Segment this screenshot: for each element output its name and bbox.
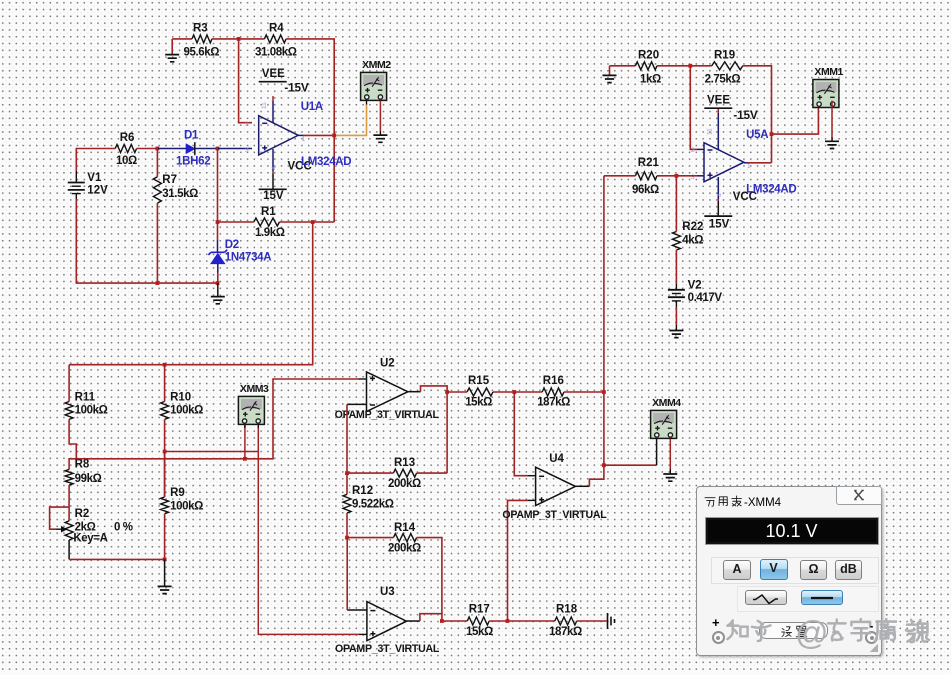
battery V2: [668, 280, 722, 305]
node R13/R12/U2- junction: [345, 471, 349, 475]
svg-text:R16: R16: [543, 375, 564, 387]
button Ohm: [800, 560, 827, 580]
button dB: [835, 560, 862, 580]
wire top rail (R1 node to R11/R10): [69, 222, 313, 365]
op-amp U3 (virtual): [367, 602, 407, 641]
svg-text:OPAMP_3T_VIRTUAL: OPAMP_3T_VIRTUAL: [335, 643, 440, 655]
wire ground to R20: [610, 65, 636, 67]
wire R9 bottom lead: [164, 514, 166, 560]
svg-text:1N4734A: 1N4734A: [225, 251, 271, 263]
wire R18 right lead: [577, 620, 607, 622]
resistor R11: [65, 391, 107, 419]
multimeter XMM1: [813, 66, 844, 108]
svg-text:1.9kΩ: 1.9kΩ: [255, 227, 285, 239]
wire R2 bottom lead: [68, 540, 70, 559]
wire R3-R4: [212, 38, 264, 40]
svg-text:9.522kΩ: 9.522kΩ: [352, 499, 394, 511]
button V (selected): [760, 559, 788, 580]
svg-text:OPAMP_3T_VIRTUAL: OPAMP_3T_VIRTUAL: [502, 509, 607, 521]
zener diode D2 1N4734A: [208, 222, 271, 283]
resistor R15: [465, 375, 493, 409]
svg-text:99kΩ: 99kΩ: [75, 473, 102, 485]
svg-text:95.6kΩ: 95.6kΩ: [184, 47, 220, 59]
svg-text:V1: V1: [87, 172, 102, 184]
svg-text:200kΩ: 200kΩ: [388, 478, 421, 490]
resistor R10: [161, 391, 203, 419]
wire V1 bottom rail: [76, 199, 217, 283]
potentiometer R2: [50, 507, 133, 544]
wire node A to D1 anode: [157, 148, 186, 150]
svg-text:15kΩ: 15kΩ: [465, 397, 492, 409]
svg-text:OPAMP_3T_VIRTUAL: OPAMP_3T_VIRTUAL: [335, 409, 440, 421]
ground (XMM1): [825, 141, 839, 148]
wire R19 to output vertical: [743, 66, 772, 163]
ground (left of R20): [603, 66, 617, 83]
op-amp U2 (virtual): [367, 372, 408, 412]
battery V1: [68, 170, 108, 200]
wire XMM4 right terminal to ground: [669, 439, 671, 469]
wire junction to U1A inverting input: [239, 39, 252, 123]
resistor R1: [254, 206, 285, 239]
plus jack: [712, 615, 720, 630]
wire R1 left lead: [218, 221, 254, 223]
node R17/R18/U4+ junction: [506, 619, 510, 623]
wire U1A output: [298, 134, 303, 136]
resistor R3: [184, 23, 220, 59]
node U4 out/XMM4 junction: [602, 463, 606, 467]
minus jack: [869, 618, 873, 633]
wire U3 non-inverting stub: [359, 633, 367, 635]
wire R1 node to R4 vertical: [313, 221, 335, 223]
wire R12 top lead: [346, 473, 348, 494]
ground (XMM2): [373, 135, 387, 142]
wire U5A output: [744, 162, 748, 164]
node XMM1 branch junction: [770, 132, 774, 136]
wire U3 inverting input: [347, 609, 367, 611]
node R10/R9 junction: [163, 450, 167, 454]
resistor R7: [153, 174, 198, 203]
svg-text:R9: R9: [170, 487, 185, 499]
ground (XMM4): [663, 474, 677, 481]
wire R7 leads: [156, 149, 158, 284]
ground (sideways, after R18): [608, 613, 615, 629]
resize grip: [870, 644, 878, 652]
wire R22 top lead: [675, 176, 677, 232]
wire XMM3 left terminal down: [244, 424, 246, 458]
svg-text:3: 3: [245, 147, 249, 154]
wire line R10/R9 node to XMM3 right: [165, 451, 259, 453]
svg-text:U1A: U1A: [301, 101, 323, 113]
button AC (sine): [745, 590, 787, 605]
wire junction to U5A inverting input: [690, 66, 697, 150]
svg-text:U5A: U5A: [746, 129, 768, 141]
resistor R19: [705, 50, 743, 86]
svg-text:2: 2: [245, 121, 249, 128]
resistor R8: [65, 459, 101, 486]
wire node C to U2+ (long): [76, 379, 358, 459]
VCC power (U1A): [259, 160, 312, 202]
node R1 left junction: [216, 220, 220, 224]
svg-text:R11: R11: [75, 391, 96, 403]
wire R11 top lead: [68, 365, 70, 402]
ground (below R9): [158, 586, 172, 593]
wire R17 right to R18: [489, 620, 555, 622]
svg-text:R15: R15: [468, 375, 490, 387]
svg-text:0.417V: 0.417V: [688, 292, 723, 304]
svg-text:R10: R10: [170, 391, 191, 403]
wire junction to XMM4 left terminal: [604, 464, 657, 466]
svg-text:U3: U3: [380, 586, 395, 598]
svg-text:D2: D2: [225, 239, 239, 251]
svg-text:11: 11: [261, 102, 268, 109]
resistor R4: [255, 23, 297, 59]
wire ground to R3: [172, 38, 192, 40]
svg-text:1kΩ: 1kΩ: [640, 74, 661, 86]
node R3/R4 junction: [237, 37, 241, 41]
node XMM3 left junction: [243, 457, 247, 461]
VCC power (U5A): [704, 191, 757, 231]
svg-text:LM324AD: LM324AD: [301, 156, 351, 168]
node R21/R22/U5A+ junction: [675, 174, 679, 178]
svg-text:XMM4: XMM4: [652, 397, 681, 409]
resistor R14: [388, 522, 421, 555]
resistor R18: [549, 604, 582, 639]
svg-text:Key=A: Key=A: [73, 533, 107, 545]
resistor R13: [388, 457, 421, 490]
resistor R17: [466, 604, 493, 639]
wire R13 right lead: [417, 472, 448, 474]
resistor R21: [632, 157, 660, 196]
svg-text:R20: R20: [638, 50, 659, 62]
svg-text:4: 4: [717, 193, 724, 197]
svg-text:15kΩ: 15kΩ: [466, 626, 493, 638]
wire R13 left lead: [347, 472, 393, 474]
svg-text:R1: R1: [261, 206, 276, 218]
svg-text:R18: R18: [556, 604, 578, 616]
svg-text:1: 1: [302, 136, 306, 143]
svg-text:R21: R21: [638, 157, 660, 169]
wire R14 left lead: [347, 537, 393, 539]
wire R6 to node A: [137, 148, 158, 150]
node A (R6/R7/D1): [156, 147, 160, 151]
wire node B down to R1 node: [217, 149, 219, 223]
svg-text:R6: R6: [120, 132, 135, 144]
wire XMM1 right terminal to ground: [831, 101, 833, 137]
svg-text:1: 1: [747, 163, 751, 170]
wire U4 output jog: [575, 485, 589, 487]
svg-text:R22: R22: [682, 221, 703, 233]
svg-text:LM324AD: LM324AD: [746, 183, 796, 195]
svg-text:R3: R3: [193, 23, 208, 35]
wire R4 to output node vertical: [286, 39, 334, 222]
svg-text:R13: R13: [394, 457, 415, 469]
svg-text:100kΩ: 100kΩ: [75, 405, 108, 417]
svg-text:XMM2: XMM2: [362, 59, 391, 71]
resistor R9: [161, 487, 203, 514]
svg-text:187kΩ: 187kΩ: [549, 626, 582, 638]
svg-text:10Ω: 10Ω: [116, 155, 137, 167]
svg-text:XMM1: XMM1: [814, 66, 843, 78]
settings button 设置: [759, 622, 828, 639]
op-amp U1A LM324AD: [245, 96, 306, 189]
multimeter XMM4: [651, 397, 682, 439]
wire long vertical net (R21 to U4 out): [603, 176, 605, 465]
resistor R12: [343, 485, 394, 513]
svg-text:4: 4: [271, 166, 278, 170]
node U2 out/R13/R15 junction: [445, 390, 449, 394]
svg-text:15V: 15V: [709, 218, 730, 230]
multimeter window XMM4: [696, 486, 882, 656]
svg-text:100kΩ: 100kΩ: [170, 501, 203, 513]
node R10 top junction: [163, 363, 167, 367]
wire XMM3 right terminal down to U3+: [258, 428, 359, 634]
wire XMM2 right terminal to ground: [379, 101, 381, 131]
svg-text:11: 11: [707, 128, 714, 135]
wire node B to U1A non-inverting input: [218, 148, 253, 150]
svg-text:2.75kΩ: 2.75kΩ: [705, 74, 741, 86]
svg-text:-XMM4: -XMM4: [744, 497, 782, 508]
svg-text:R12: R12: [352, 485, 373, 497]
wire R15 left lead: [447, 391, 467, 393]
svg-text:-15V: -15V: [733, 110, 758, 122]
wire to ground below R9: [164, 559, 166, 586]
node R16/long vertical junction: [602, 390, 606, 394]
svg-text:R4: R4: [269, 23, 284, 35]
wire R1 right lead: [279, 221, 312, 223]
wire R15-R16: [493, 391, 542, 393]
svg-text:15V: 15V: [263, 190, 284, 202]
wire D2 to ground: [217, 283, 219, 297]
resistor R6: [115, 132, 137, 167]
svg-text:-15V: -15V: [284, 82, 309, 94]
diode D1 1BH62: [176, 130, 210, 168]
op-amp U4 (virtual): [536, 467, 576, 505]
wire R16 right lead: [564, 391, 604, 393]
node B (D1/U1A+/D2): [216, 147, 220, 151]
svg-text:R8: R8: [75, 459, 90, 471]
svg-text:U4: U4: [549, 453, 564, 465]
VEE power (U1A): [259, 68, 309, 95]
wire R10 top lead: [164, 365, 166, 402]
svg-text:R7: R7: [162, 174, 177, 186]
svg-text:4kΩ: 4kΩ: [682, 235, 703, 247]
svg-text:0 %: 0 %: [114, 522, 133, 534]
svg-text:VEE: VEE: [707, 95, 730, 107]
wire output to XMM2 (orange): [334, 104, 366, 135]
svg-text:V2: V2: [688, 280, 702, 292]
svg-text:R14: R14: [394, 522, 416, 534]
svg-text:XMM3: XMM3: [240, 383, 269, 395]
svg-text:2: 2: [691, 147, 695, 154]
svg-text:R2: R2: [75, 508, 90, 520]
ground (below D2): [211, 297, 225, 304]
wire R12 bottom lead: [346, 513, 348, 538]
wire R10 to R9: [164, 419, 166, 497]
wire U2 inverting input: [347, 403, 367, 405]
display 10.1 V: [705, 517, 879, 545]
wire R20-R19: [657, 65, 712, 67]
svg-text:R19: R19: [714, 50, 735, 62]
wire R22 to V2: [675, 250, 677, 284]
svg-text:31.08kΩ: 31.08kΩ: [255, 47, 297, 59]
wire V2 to ground: [675, 301, 677, 307]
node U3 out/R14/R17 junction: [440, 619, 444, 623]
ground (below V2): [669, 331, 683, 338]
resistor R16: [537, 375, 570, 409]
node R15/R16/U4- junction: [512, 390, 516, 394]
svg-text:U2: U2: [380, 358, 395, 370]
svg-text:200kΩ: 200kΩ: [388, 543, 421, 555]
multimeter XMM2: [361, 59, 392, 101]
wire V1 top to R6: [76, 149, 115, 172]
svg-text:VEE: VEE: [262, 68, 285, 80]
button DC (selected): [801, 590, 843, 605]
svg-text:187kΩ: 187kΩ: [537, 397, 570, 409]
svg-text:R17: R17: [469, 604, 490, 616]
node R7/bottom-rail junction: [156, 281, 160, 285]
wire R8 to R2: [68, 485, 70, 521]
wire U3 output jog: [407, 620, 420, 622]
resistor R22: [672, 221, 703, 250]
resistor R20: [635, 50, 661, 86]
ground (left of R3): [165, 39, 179, 62]
op-amp U5A LM324AD: [691, 108, 751, 216]
svg-text:96kΩ: 96kΩ: [632, 184, 659, 196]
svg-text:D1: D1: [184, 130, 199, 142]
multimeter XMM3: [238, 383, 269, 425]
wire junction up to U4 non-inverting input: [508, 500, 528, 621]
svg-text:31.5kΩ: 31.5kΩ: [162, 188, 198, 200]
svg-text:100kΩ: 100kΩ: [170, 405, 203, 417]
button A: [723, 560, 751, 580]
wire R21 left to long vertical: [604, 175, 636, 177]
wire D1 cathode to node B: [195, 148, 218, 150]
wire U2 output jog: [408, 391, 421, 393]
node D2/bottom-rail junction: [216, 281, 220, 285]
node bottom rail/ground junction: [163, 558, 167, 562]
close button: [836, 486, 882, 505]
svg-text:12V: 12V: [87, 185, 108, 197]
window title 万用表-XMM4: [704, 493, 824, 507]
node output/XMM2 junction: [332, 134, 336, 138]
node R14/R12/U3- junction: [345, 536, 349, 540]
wire junction down to U4 inverting input: [514, 392, 527, 476]
wire R21 right to U5A+: [657, 175, 697, 177]
wire R11 bottom jog to R8: [69, 419, 76, 469]
wire R14 right lead: [417, 538, 442, 614]
node R20/R19 junction: [688, 64, 692, 68]
node R1 right junction: [311, 220, 315, 224]
VEE power (U5A): [704, 95, 758, 122]
wire bottom rail R2 to R9/ground: [69, 558, 165, 560]
wire XMM1 branch: [772, 104, 819, 134]
svg-text:1BH62: 1BH62: [176, 156, 210, 168]
wire R9 top lead: [164, 452, 166, 498]
